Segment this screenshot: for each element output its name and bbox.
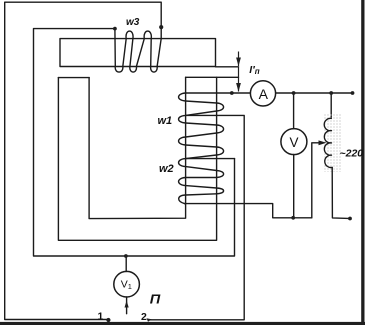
terminal dot right lower	[348, 217, 352, 221]
voltmeter V	[281, 129, 307, 155]
ammeter A	[250, 81, 275, 106]
variac halftone shading	[323, 114, 342, 172]
bottom border	[0, 322, 365, 325]
wire variac top	[330, 93, 332, 118]
air gap current arrow I'p	[238, 52, 240, 92]
junction dot w3 left	[113, 27, 117, 31]
wire voltmeter branch lower	[293, 155, 295, 218]
variac wiper arrowhead	[319, 140, 327, 145]
wire tap w1/w2 junction to terminal 2	[149, 115, 244, 319]
wire yoke bottom edge extension to gap arrow	[216, 66, 239, 68]
svg-text:1: 1	[98, 311, 104, 323]
wire w3 left terminal loop down to V1 bus and up to w2 tap	[34, 29, 235, 256]
wire voltmeter branch upper	[293, 93, 295, 129]
voltmeter V1 branch	[125, 256, 127, 272]
svg-text:П: П	[150, 292, 162, 306]
junction dot on ammeter wire	[230, 91, 234, 95]
svg-text:A: A	[259, 86, 269, 102]
right border	[361, 0, 364, 325]
winding w3 on yoke	[115, 29, 161, 72]
wire ammeter to right terminal	[276, 92, 353, 94]
wire w2 bottom end to V junction	[185, 204, 312, 218]
wire variac wiper riser	[312, 143, 319, 218]
svg-text:w3: w3	[126, 17, 140, 28]
wire variac bottom to right lower terminal	[332, 167, 348, 218]
core left limb top cap	[58, 77, 89, 79]
terminal dot right upper	[351, 91, 355, 95]
terminal dot 1	[106, 318, 110, 322]
junction dot w3 right riser	[159, 25, 163, 29]
core right limb top cap extended to gap arrow	[186, 76, 239, 78]
svg-text:w1: w1	[158, 115, 173, 127]
svg-text:2: 2	[141, 311, 147, 323]
winding w1 and w2 on right limb	[179, 93, 224, 204]
core U outer edge	[58, 77, 216, 240]
junction dot V1 top	[124, 254, 128, 258]
svg-text:~220: ~220	[340, 148, 364, 160]
wire outer loop from w3 right terminal to terminal 1	[5, 2, 162, 319]
svg-text:w2: w2	[159, 163, 174, 175]
switch blade arrowhead	[125, 301, 129, 308]
terminal tick 2	[147, 318, 152, 322]
core yoke bar with w3	[60, 39, 216, 67]
wire w1 top to ammeter	[186, 92, 251, 94]
junction dot voltmeter branch	[292, 91, 296, 95]
junction dot V bottom	[291, 216, 295, 220]
core window inner edge	[89, 77, 186, 218]
switch blade arrow below V1	[126, 297, 128, 314]
autotransformer variac coil	[324, 118, 332, 167]
svg-text:V: V	[289, 135, 298, 150]
junction dot variac branch	[329, 91, 333, 95]
wire tap to V1 riser	[186, 158, 235, 160]
